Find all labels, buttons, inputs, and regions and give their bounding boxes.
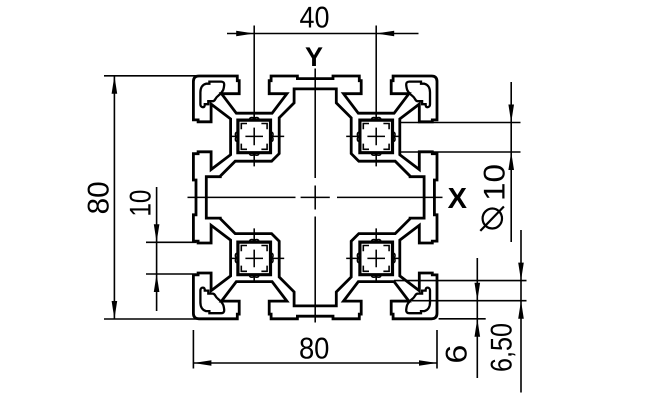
profile quadrant top-left bbox=[193, 76, 315, 197]
arrow dim40 left bbox=[236, 31, 254, 37]
arrow dim80B left bbox=[193, 360, 211, 366]
svg-text:80: 80 bbox=[83, 181, 116, 214]
svg-text:6: 6 bbox=[440, 345, 473, 364]
profile quadrant bottom-right bbox=[315, 197, 437, 318]
svg-text:Y: Y bbox=[305, 42, 323, 72]
dimension 10 (left, slot width) bbox=[146, 187, 197, 311]
centreline axis Y bbox=[314, 69, 316, 323]
arrow dim6 bottom bbox=[475, 319, 481, 337]
dimension 6,50 (bottom right) bbox=[391, 230, 527, 393]
svg-text:10: 10 bbox=[478, 164, 511, 201]
arrow dim40 right bbox=[376, 31, 394, 37]
arrow dim80L bottom bbox=[112, 301, 118, 319]
profile quadrant top-right bbox=[315, 76, 437, 197]
svg-text:40: 40 bbox=[300, 2, 330, 35]
arrow dim10 top bbox=[154, 224, 160, 242]
arrow dim6 top bbox=[475, 283, 481, 301]
arrow dim650 bottom bbox=[518, 301, 524, 319]
dimension 40 (top) bbox=[227, 26, 419, 121]
arrow dimD10 top bbox=[508, 105, 514, 123]
svg-text:80: 80 bbox=[299, 333, 330, 366]
arrow dimD10 bottom bbox=[508, 152, 514, 170]
diameter symbol slash bbox=[480, 207, 504, 231]
svg-text:10: 10 bbox=[125, 190, 158, 217]
dimension 80 (left) bbox=[104, 76, 197, 319]
dimension 6 (bottom right, slot lip depth) bbox=[439, 258, 486, 378]
arrow dim80B right bbox=[419, 360, 437, 366]
dimension Ø10 (right, core bore) bbox=[400, 82, 521, 242]
profile quadrant bottom-left bbox=[193, 197, 315, 318]
arrow dim10 bottom bbox=[154, 274, 160, 292]
arrow dim650 top bbox=[518, 263, 524, 281]
arrow dim80L top bbox=[112, 76, 118, 94]
svg-text:6,50: 6,50 bbox=[486, 323, 519, 372]
diameter symbol circle bbox=[483, 209, 502, 229]
svg-text:X: X bbox=[448, 183, 468, 215]
centreline axis X bbox=[188, 196, 443, 198]
dimension 80 (bottom) bbox=[193, 330, 437, 369]
